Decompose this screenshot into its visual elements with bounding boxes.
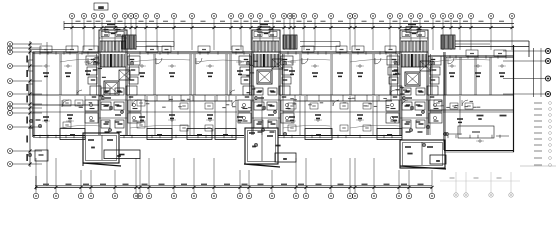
building outer wall right xyxy=(513,45,515,152)
stair core left upper hatch xyxy=(100,41,126,52)
stair core right stair run xyxy=(401,54,427,67)
core right bath cluster left xyxy=(386,100,399,123)
corridor wall mid xyxy=(33,111,514,113)
core center bath cluster right xyxy=(281,100,294,123)
right legend faint text column xyxy=(520,102,556,167)
entrance porch left xyxy=(83,133,140,166)
stair core right vestibule hatch xyxy=(441,35,455,49)
building outer wall bottom xyxy=(33,136,514,153)
core right tower top marks xyxy=(405,29,423,36)
bottom grid bubbles xyxy=(33,158,434,199)
right grid bubbles mini column xyxy=(503,48,551,97)
left wall bay stubs xyxy=(29,60,34,95)
left grid bubbles column xyxy=(8,42,43,167)
bottom-left utility box xyxy=(28,150,48,161)
building outer wall left xyxy=(33,52,35,137)
core left bath cluster right xyxy=(128,100,141,123)
stair core center stair run xyxy=(253,54,279,67)
top dimension line xyxy=(64,21,514,30)
bay boxes top band xyxy=(40,46,506,57)
right wing interior xyxy=(426,52,514,150)
top grid stems xyxy=(72,19,512,50)
window mullions bottom wall xyxy=(40,135,500,138)
mid band partitions xyxy=(60,96,460,135)
bottom grid faint bubbles right xyxy=(440,172,520,197)
stair core left stair run xyxy=(100,54,126,67)
core center annotations xyxy=(244,33,289,123)
elevator center xyxy=(257,59,283,84)
core left service rooms xyxy=(86,56,140,95)
bottom dimension line xyxy=(35,176,434,190)
entrance porch right xyxy=(400,132,447,169)
stair core center walls xyxy=(250,52,283,135)
core right bath cluster right xyxy=(429,100,442,123)
stair core center tower xyxy=(252,24,280,52)
door arcs xyxy=(62,58,468,107)
core left annotations xyxy=(91,33,136,123)
bottom-left symbol cluster xyxy=(29,119,42,128)
core center tower top marks xyxy=(257,29,275,36)
building outer wall top xyxy=(33,52,514,58)
core center bath cluster left xyxy=(238,100,251,123)
elevator left xyxy=(104,70,130,95)
left dimension chain xyxy=(26,41,47,186)
corridor micro marks xyxy=(77,57,480,108)
stair core center upper hatch xyxy=(253,41,279,52)
wiring squiggles xyxy=(60,59,490,128)
stair core center vestibule hatch xyxy=(283,35,297,49)
balcony boxes xyxy=(60,129,402,140)
canopy lines left core xyxy=(136,42,174,47)
mid band fixtures xyxy=(63,100,473,131)
closet row xyxy=(145,95,392,101)
core center service rooms xyxy=(239,56,293,95)
core left bath cluster left xyxy=(85,100,98,123)
canopy lines right wing xyxy=(455,41,529,57)
stair core left tower xyxy=(99,24,127,52)
electrical symbols xyxy=(42,61,506,142)
core right annotations xyxy=(392,33,437,123)
window mullions top wall xyxy=(40,51,506,58)
stair core right walls xyxy=(398,52,431,135)
elevator right xyxy=(405,61,431,86)
entrance porch center xyxy=(244,128,296,167)
core right interior cells xyxy=(402,88,425,133)
top dimension texts xyxy=(76,21,505,22)
left section roof band xyxy=(30,50,73,56)
room labels xyxy=(43,70,505,123)
stair core left walls xyxy=(97,52,130,135)
canopy lines center core xyxy=(300,42,340,47)
top grid bubbles row xyxy=(69,13,514,18)
wall under top rooms xyxy=(33,94,514,96)
stair core left vestibule hatch xyxy=(122,35,136,49)
core left tower top marks xyxy=(104,29,122,36)
stair core right tower xyxy=(400,24,428,52)
core center interior cells xyxy=(254,88,277,133)
core right service rooms xyxy=(387,56,441,95)
core left interior cells xyxy=(101,88,124,133)
stair core right upper hatch xyxy=(401,41,427,52)
top band partitions xyxy=(60,54,491,95)
top-left label box PS xyxy=(94,3,108,10)
left section corridor wall xyxy=(33,104,99,106)
